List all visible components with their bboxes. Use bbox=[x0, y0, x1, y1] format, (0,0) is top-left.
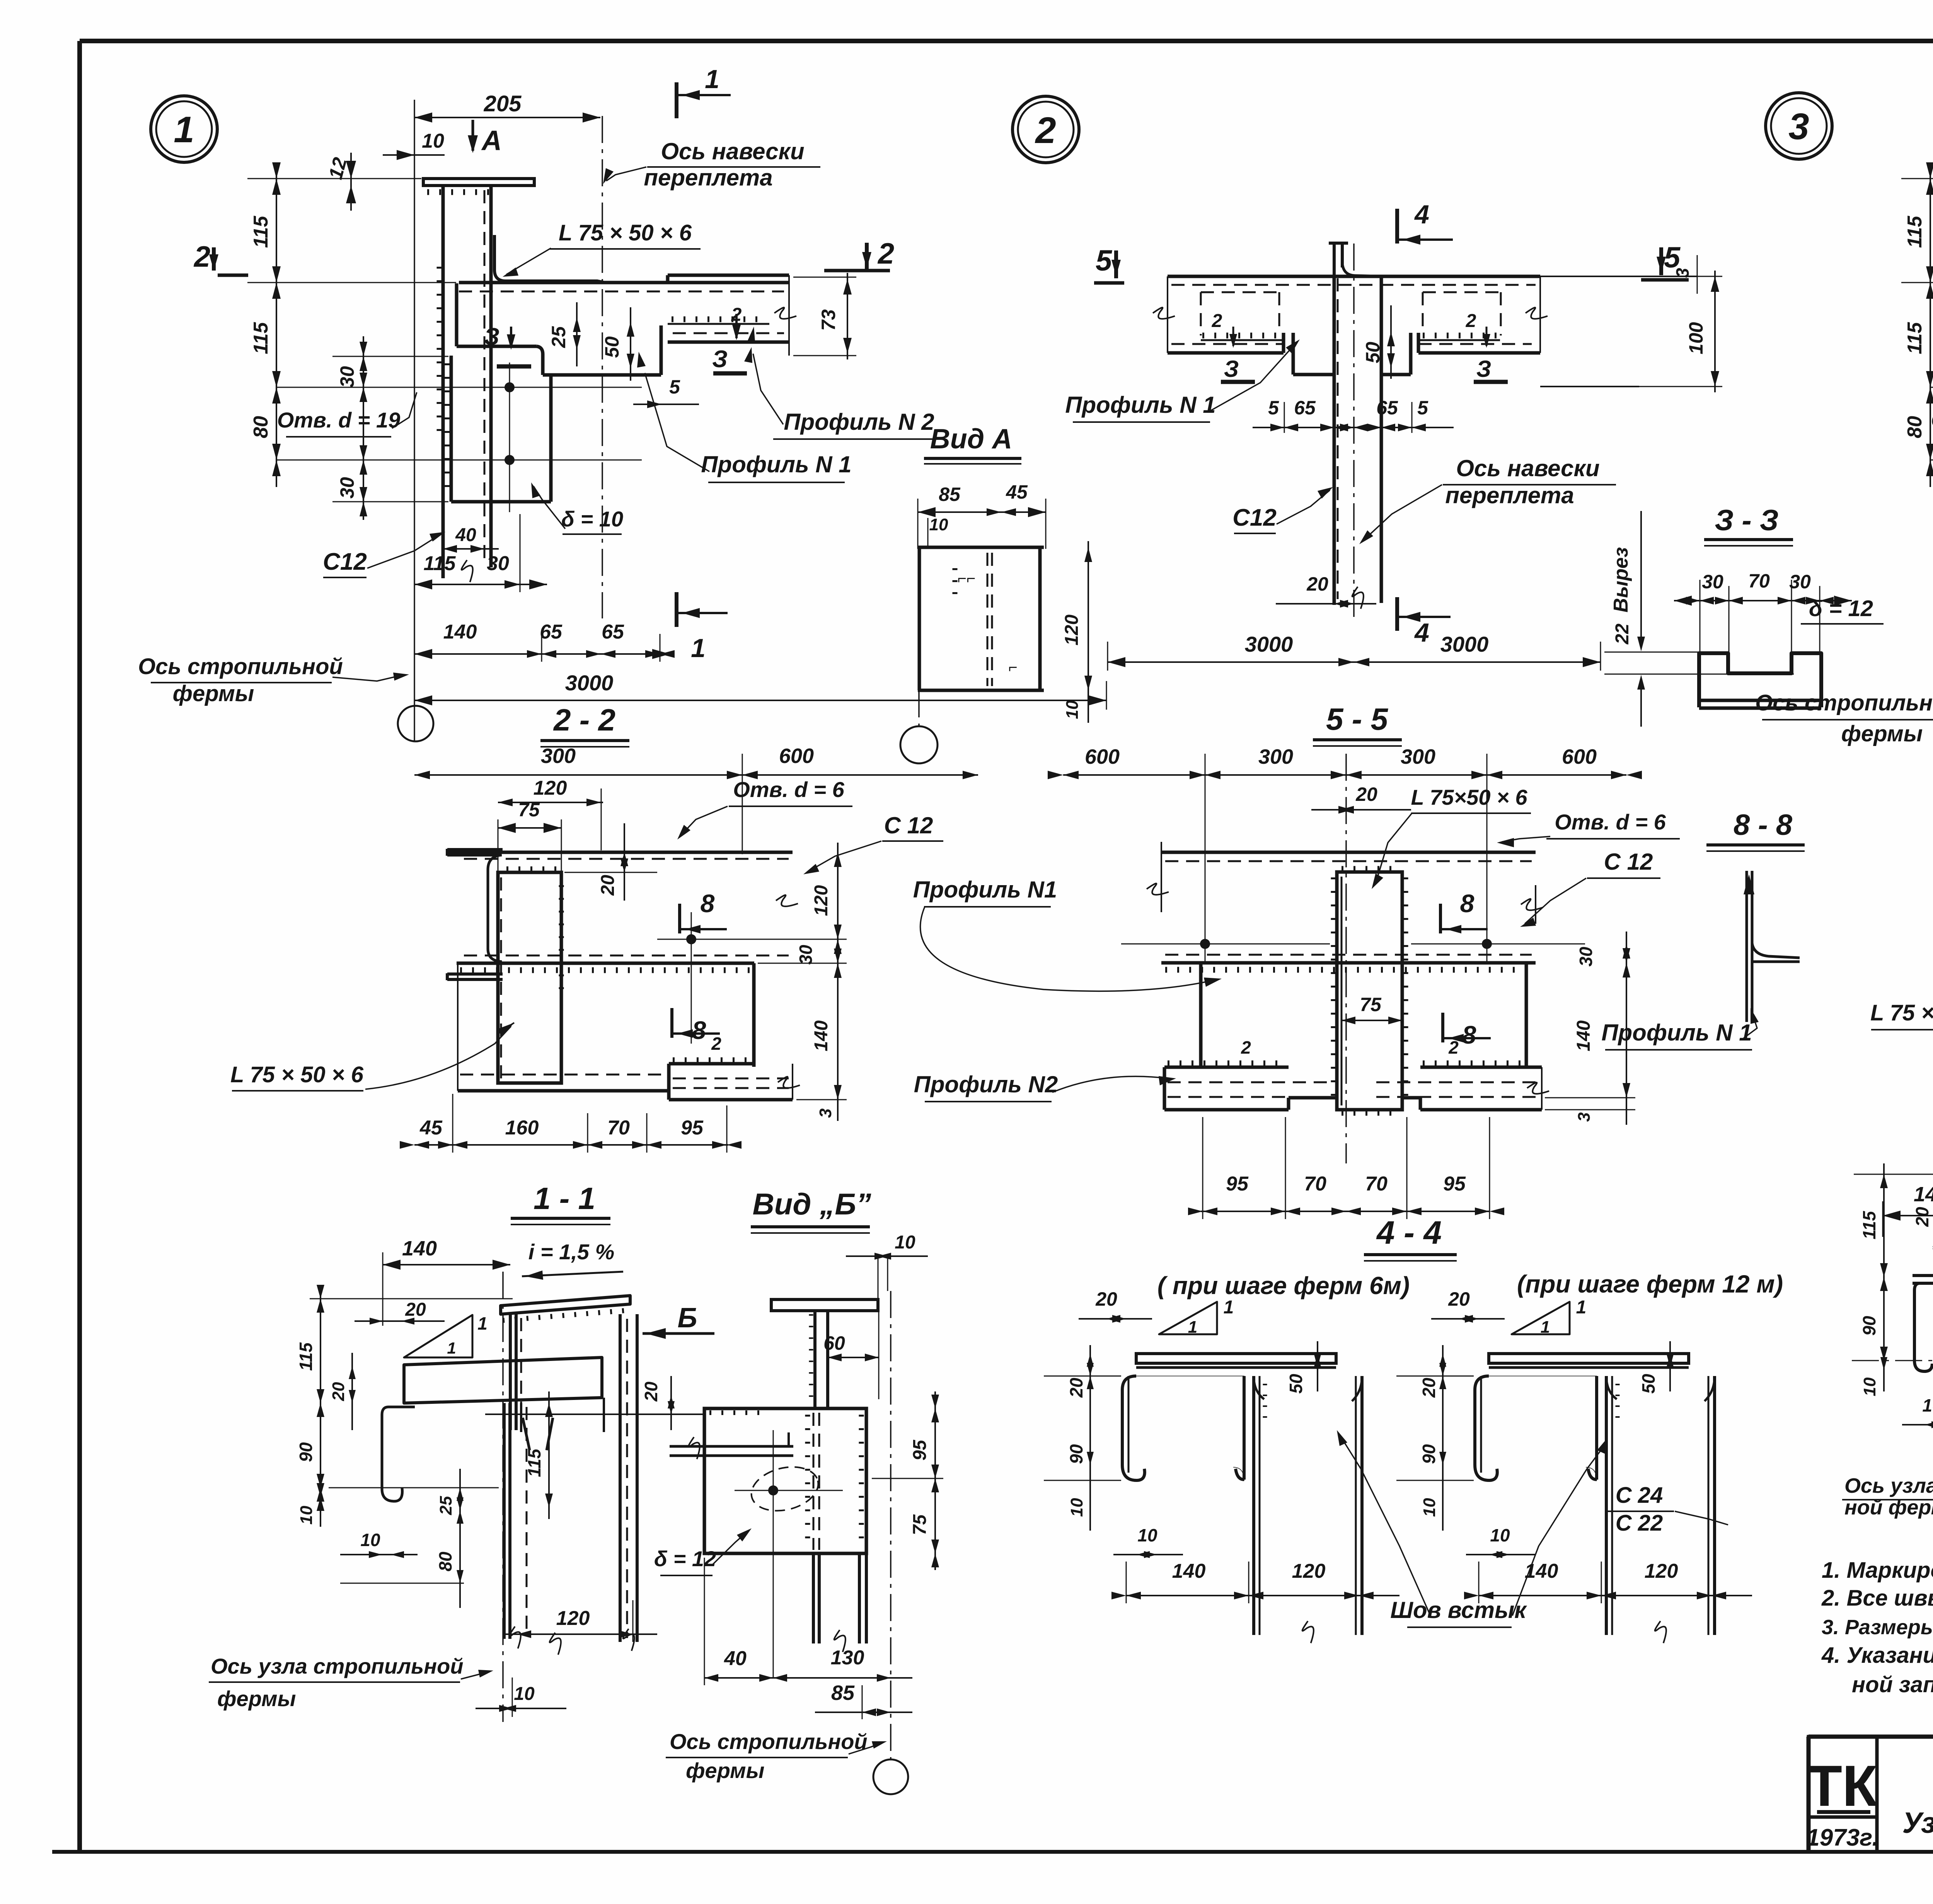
top plate (1-1) bbox=[404, 1357, 602, 1403]
svg-text:1: 1 bbox=[1541, 1318, 1550, 1337]
svg-text:120: 120 bbox=[1645, 1560, 1678, 1582]
svg-text:З: З bbox=[484, 324, 499, 350]
svg-text:1. Маркировка узлов н: 1. Маркировка узлов на листах 8 ÷ 11. bbox=[1822, 1558, 1933, 1583]
node circle detail 1 bbox=[398, 706, 433, 741]
svg-text:40: 40 bbox=[724, 1647, 747, 1670]
beam top line bbox=[1168, 275, 1540, 278]
svg-text:8: 8 bbox=[701, 889, 715, 918]
svg-text:120: 120 bbox=[1062, 615, 1082, 645]
svg-text:45: 45 bbox=[419, 1117, 443, 1139]
svg-text:20: 20 bbox=[1419, 1378, 1439, 1398]
svg-text:1: 1 bbox=[705, 65, 719, 94]
svg-text:3000: 3000 bbox=[1440, 632, 1489, 656]
svg-text:2: 2 bbox=[1448, 1037, 1459, 1058]
bolts (5-5) bbox=[1200, 939, 1210, 949]
svg-text:50: 50 bbox=[1638, 1374, 1659, 1394]
svg-text:З: З bbox=[1224, 356, 1239, 382]
5-5 lower gussets bbox=[1199, 963, 1203, 1067]
section mark 4 bottom bbox=[1395, 597, 1399, 631]
svg-text:30: 30 bbox=[796, 945, 816, 965]
5-5 lower-right block bbox=[1423, 1061, 1527, 1066]
svg-text:1 - 1: 1 - 1 bbox=[534, 1181, 595, 1216]
svg-text:70: 70 bbox=[1365, 1173, 1388, 1195]
dims 115 20 (Б-Б) bbox=[1883, 1163, 1885, 1287]
svg-text:10: 10 bbox=[1922, 1395, 1933, 1415]
title block outline bbox=[1809, 1735, 1933, 1739]
svg-text:( при шаге ферм 6м): ( при шаге ферм 6м) bbox=[1157, 1272, 1410, 1299]
bracket channel verticals (1-1) bbox=[503, 1403, 506, 1639]
2-2 lower outline bbox=[457, 963, 459, 1091]
svg-text:2 - 2: 2 - 2 bbox=[553, 703, 615, 737]
dim 20 (2-2) bbox=[624, 823, 625, 901]
svg-text:95: 95 bbox=[1443, 1173, 1466, 1195]
svg-text:1: 1 bbox=[447, 1339, 456, 1357]
svg-text:Профиль N 1: Профиль N 1 bbox=[701, 451, 851, 477]
left rail block bbox=[1202, 333, 1278, 339]
svg-text:90: 90 bbox=[296, 1442, 316, 1462]
svg-text:5: 5 bbox=[669, 376, 680, 398]
svg-text:1: 1 bbox=[477, 1313, 488, 1333]
dims 3000 3000 (detail 2) bbox=[1108, 661, 1601, 663]
svg-text:Отв. d = 19: Отв. d = 19 bbox=[277, 408, 401, 432]
svg-text:30: 30 bbox=[1702, 571, 1723, 593]
svg-text:120: 120 bbox=[1292, 1560, 1326, 1582]
svg-text:300: 300 bbox=[1401, 745, 1435, 768]
view arrow A bbox=[472, 120, 474, 151]
svg-text:Вид „Б”: Вид „Б” bbox=[752, 1187, 871, 1221]
dim 20 left (1-1) bbox=[351, 1353, 353, 1430]
svg-text:115: 115 bbox=[296, 1342, 316, 1371]
C12 channel stem bbox=[441, 186, 445, 578]
dim 100 right bbox=[1714, 271, 1716, 392]
bottom dims 140 / 65 / 65 bbox=[414, 653, 670, 655]
svg-text:120: 120 bbox=[811, 885, 832, 916]
svg-text:95: 95 bbox=[910, 1439, 930, 1461]
dims chain (4-4) bbox=[1089, 1345, 1091, 1531]
svg-text:Ось навески: Ось навески bbox=[661, 138, 804, 164]
svg-text:10: 10 bbox=[297, 1505, 316, 1524]
svg-text:20: 20 bbox=[1912, 1207, 1932, 1227]
right channel (4-4) bbox=[1605, 1376, 1608, 1635]
svg-text:600: 600 bbox=[1562, 745, 1597, 768]
svg-text:Ось узла стропильˉ: Ось узла стропильˉ bbox=[1844, 1474, 1933, 1497]
svg-text:205: 205 bbox=[484, 91, 522, 116]
svg-text:10: 10 bbox=[1063, 700, 1082, 719]
svg-text:10: 10 bbox=[514, 1684, 535, 1704]
svg-text:10: 10 bbox=[1860, 1377, 1879, 1396]
svg-text:С 22: С 22 bbox=[1616, 1511, 1663, 1536]
svg-text:З - З: З - З bbox=[1715, 504, 1778, 537]
top plate (4-4) bbox=[1136, 1354, 1336, 1363]
left channel (4-4) bbox=[1475, 1376, 1497, 1480]
svg-text:60: 60 bbox=[823, 1332, 845, 1354]
section mark 1 top bbox=[675, 82, 678, 118]
svg-text:5: 5 bbox=[1096, 244, 1113, 277]
svg-text:⌐: ⌐ bbox=[1008, 659, 1017, 676]
dims 95 / 75 (Вид Б) bbox=[934, 1391, 936, 1570]
svg-text:20: 20 bbox=[1095, 1288, 1117, 1310]
svg-text:90: 90 bbox=[1066, 1444, 1086, 1464]
dims 300 600 bbox=[414, 774, 978, 776]
svg-text:75: 75 bbox=[1360, 994, 1382, 1015]
svg-text:ТК: ТК bbox=[1807, 1753, 1878, 1818]
slope triangle (4-4) bbox=[1159, 1302, 1217, 1334]
inclined top plate (Вид Б left) bbox=[501, 1296, 630, 1314]
svg-text:1973г.: 1973г. bbox=[1806, 1824, 1878, 1851]
small stub angle on top bbox=[1333, 243, 1336, 276]
detail 3 bubble bbox=[1766, 93, 1832, 159]
right dims 30 140 3 (5-5) bbox=[1626, 932, 1627, 1125]
svg-text:Профиль N 2: Профиль N 2 bbox=[784, 409, 934, 435]
svg-text:10: 10 bbox=[360, 1530, 380, 1550]
svg-text:50: 50 bbox=[601, 336, 623, 358]
svg-text:С 12: С 12 bbox=[1604, 849, 1653, 875]
dims chain (4-4) bbox=[1442, 1345, 1444, 1531]
svg-text:Профиль N 1: Профиль N 1 bbox=[1065, 392, 1215, 418]
svg-text:95: 95 bbox=[681, 1117, 704, 1139]
detail 2 centre axis bbox=[1353, 244, 1355, 623]
axis (Вид Б) bbox=[890, 1291, 891, 1759]
section mark 1 bottom bbox=[675, 592, 678, 627]
svg-text:80: 80 bbox=[250, 416, 272, 438]
svg-text:8: 8 bbox=[692, 1016, 706, 1044]
svg-text:1: 1 bbox=[1224, 1297, 1234, 1318]
vertical axis of truss (осъ стропильной фермы) bbox=[414, 100, 415, 742]
5-5 centre stem rectangle bbox=[1337, 872, 1402, 1110]
angle L75x50x6 bbox=[494, 235, 605, 283]
gusset plate outline bbox=[455, 283, 459, 346]
svg-text:73: 73 bbox=[818, 309, 839, 331]
svg-text:115: 115 bbox=[1904, 215, 1926, 248]
svg-text:75: 75 bbox=[518, 799, 540, 821]
svg-text:С12: С12 bbox=[1232, 504, 1277, 531]
svg-text:65: 65 bbox=[1294, 397, 1316, 419]
2-2 gusset rectangle bbox=[498, 872, 561, 1083]
svg-text:45: 45 bbox=[1006, 481, 1028, 503]
svg-text:фермы: фермы bbox=[217, 1686, 296, 1711]
svg-text:300: 300 bbox=[541, 744, 576, 768]
oval with bolt (Вид Б) bbox=[747, 1460, 823, 1517]
svg-text:5: 5 bbox=[1268, 397, 1279, 419]
svg-text:20: 20 bbox=[329, 1382, 348, 1401]
svg-text:30: 30 bbox=[336, 477, 358, 499]
svg-text:Б: Б bbox=[678, 1303, 697, 1333]
svg-text:Ось стропильной: Ось стропильной bbox=[1755, 690, 1933, 715]
svg-text:140: 140 bbox=[402, 1237, 437, 1260]
svg-text:20: 20 bbox=[1306, 573, 1328, 595]
svg-text:Узлы 1; 2 и 3 фонарных панеле: Узлы 1; 2 и 3 фонарных панелей bbox=[1902, 1807, 1933, 1839]
inner 30 dims bbox=[363, 336, 364, 520]
svg-text:600: 600 bbox=[1085, 745, 1120, 768]
page border frame bbox=[80, 39, 1933, 43]
svg-text:5 - 5: 5 - 5 bbox=[1326, 702, 1389, 736]
svg-text:L 75 × 50 × 6: L 75 × 50 × 6 bbox=[559, 220, 692, 245]
flange plate (Б-Б) bbox=[1913, 1274, 1933, 1277]
svg-text:Ось стропильной: Ось стропильной bbox=[670, 1729, 868, 1754]
svg-text:100: 100 bbox=[1685, 322, 1707, 354]
svg-text:5: 5 bbox=[1417, 397, 1428, 419]
profile N2 block top right bbox=[668, 274, 789, 277]
bottom dims 95 70 70 95 (5-5) bbox=[1201, 1211, 1490, 1212]
svg-text:65: 65 bbox=[1376, 397, 1398, 419]
node circle below Вид А bbox=[918, 690, 920, 726]
right dims 120/30/140/3 (2-2) bbox=[837, 843, 839, 1121]
svg-text:Профиль N 1: Профиль N 1 bbox=[1601, 1020, 1752, 1046]
svg-text:115: 115 bbox=[424, 552, 456, 575]
svg-text:70: 70 bbox=[607, 1117, 630, 1139]
svg-text:10: 10 bbox=[1420, 1498, 1439, 1517]
svg-text:30: 30 bbox=[336, 366, 358, 388]
svg-text:1: 1 bbox=[1188, 1318, 1197, 1337]
svg-text:10: 10 bbox=[1067, 1498, 1086, 1517]
centre gusset of detail 2 bbox=[1292, 333, 1295, 375]
bolt + centreline (2-2) bbox=[686, 934, 696, 944]
left hook (Б-Б) bbox=[1914, 1283, 1933, 1371]
svg-text:95: 95 bbox=[1226, 1173, 1249, 1195]
dim 50 (4-4) bbox=[1669, 1341, 1671, 1391]
svg-text:8 - 8: 8 - 8 bbox=[1734, 809, 1793, 841]
slope triangle (1-1) bbox=[404, 1315, 472, 1357]
dim 140 (1-1) bbox=[383, 1264, 510, 1265]
svg-text:Профиль N1: Профиль N1 bbox=[913, 877, 1057, 903]
svg-text:L 75 × 50 × 6: L 75 × 50 × 6 bbox=[1870, 1000, 1933, 1025]
svg-text:δ = 10: δ = 10 bbox=[561, 507, 623, 531]
svg-text:20: 20 bbox=[1355, 783, 1377, 805]
detail 2 bubble bbox=[1013, 96, 1079, 163]
svg-text:1: 1 bbox=[1576, 1297, 1587, 1318]
T-column (Вид Б) bbox=[771, 1299, 878, 1311]
svg-text:переплета: переплета bbox=[644, 165, 772, 191]
svg-text:3. Размеры поперечных сечен: 3. Размеры поперечных сечений профилей N… bbox=[1822, 1616, 1933, 1639]
dims 600 300 300 600 (5-5) bbox=[1063, 774, 1626, 776]
C12 stem below bbox=[1333, 276, 1336, 605]
dims 85 45 bbox=[918, 511, 1046, 513]
svg-text:140: 140 bbox=[811, 1020, 832, 1051]
svg-text:Шов встык: Шов встык bbox=[1390, 1597, 1527, 1623]
svg-text:3: 3 bbox=[1788, 106, 1809, 147]
svg-text:4 - 4: 4 - 4 bbox=[1376, 1214, 1442, 1251]
top plate (4-4) bbox=[1489, 1354, 1689, 1363]
right rail block bbox=[1423, 333, 1498, 339]
left dimension chain 115/115/80 bbox=[276, 166, 277, 487]
dim 3000 (detail 1) bbox=[414, 700, 1106, 701]
dim 75 (2-2) bbox=[498, 827, 561, 829]
svg-text:Ось навески: Ось навески bbox=[1456, 455, 1599, 481]
2-2 rail outline bbox=[449, 851, 793, 854]
slope triangle (4-4) bbox=[1512, 1302, 1570, 1334]
svg-text:фермы: фермы bbox=[173, 681, 254, 706]
top flange plate bbox=[423, 179, 534, 186]
svg-text:85: 85 bbox=[939, 484, 961, 505]
svg-text:(при шаге ферм 12 м): (при шаге ферм 12 м) bbox=[1517, 1270, 1783, 1298]
svg-text:30: 30 bbox=[1576, 947, 1596, 967]
dim 120 / 10 right of Вид А bbox=[1088, 541, 1089, 723]
svg-text:20: 20 bbox=[1066, 1378, 1086, 1398]
svg-text:4: 4 bbox=[1414, 200, 1429, 229]
svg-text:22: 22 bbox=[1612, 623, 1633, 645]
vertical channel under plate (Вид Б) bbox=[619, 1314, 622, 1642]
svg-text:20: 20 bbox=[1448, 1288, 1470, 1310]
dim 50 bbox=[630, 307, 631, 381]
svg-text:4: 4 bbox=[1414, 618, 1429, 647]
svg-text:2: 2 bbox=[193, 240, 210, 273]
svg-text:40: 40 bbox=[455, 525, 476, 545]
lower plate delta=10 bbox=[450, 356, 453, 502]
left dimension chain 115/115/80 bbox=[1930, 166, 1931, 487]
svg-text:115: 115 bbox=[1859, 1211, 1879, 1240]
svg-text:10: 10 bbox=[929, 515, 948, 534]
dim 205 bbox=[414, 117, 600, 118]
svg-text:А: А bbox=[481, 125, 502, 156]
svg-text:Ось узла стропильной: Ось узла стропильной bbox=[211, 1654, 464, 1678]
Вид А plate outline bbox=[918, 546, 1044, 549]
svg-text:1: 1 bbox=[691, 634, 706, 663]
svg-text:3000: 3000 bbox=[1245, 632, 1293, 656]
dim 140 (Б-Б) bbox=[1883, 1215, 1933, 1216]
bolt holes d=19 bbox=[505, 382, 515, 392]
svg-text:80: 80 bbox=[435, 1551, 455, 1572]
svg-text:115: 115 bbox=[1904, 322, 1926, 354]
svg-text:Вырез: Вырез bbox=[1610, 547, 1632, 612]
svg-text:2. Все швы h = 4мм, кроме о: 2. Все швы h = 4мм, кроме оговоренных· bbox=[1821, 1586, 1933, 1611]
svg-text:90: 90 bbox=[1859, 1316, 1879, 1336]
5-5 lower-left block bbox=[1168, 1061, 1284, 1066]
svg-text:Профиль N2: Профиль N2 bbox=[914, 1071, 1058, 1097]
dim 50 centre bbox=[1390, 305, 1392, 379]
svg-text:1: 1 bbox=[174, 109, 194, 150]
svg-text:140: 140 bbox=[443, 621, 477, 643]
node circle (Вид Б) bbox=[873, 1759, 908, 1794]
svg-text:Отв. d = 6: Отв. d = 6 bbox=[733, 777, 844, 802]
box of Вид Б bbox=[704, 1408, 866, 1553]
svg-text:4. Указания по сварке прив: 4. Указания по сварке приведены в раздел… bbox=[1821, 1643, 1933, 1668]
section mark 4 top bbox=[1395, 209, 1399, 244]
dims 30 70 30 bbox=[1674, 600, 1852, 601]
svg-text:3: 3 bbox=[816, 1109, 835, 1118]
svg-text:2: 2 bbox=[877, 237, 894, 270]
left channel (4-4) bbox=[1122, 1376, 1145, 1480]
detail 1 bubble bbox=[151, 96, 217, 162]
svg-text:8: 8 bbox=[1462, 1020, 1476, 1049]
svg-text:δ = 12: δ = 12 bbox=[654, 1546, 716, 1571]
svg-text:140: 140 bbox=[1573, 1020, 1594, 1051]
svg-text:75: 75 bbox=[910, 1514, 930, 1535]
svg-text:10: 10 bbox=[1137, 1525, 1157, 1545]
angle bracket inside box (Вид Б) bbox=[670, 1445, 793, 1448]
dims 5 65 65 5 below beam bbox=[1253, 427, 1454, 428]
svg-text:3000: 3000 bbox=[565, 671, 614, 695]
left channel legs (Вид Б) bbox=[509, 1314, 512, 1430]
3-3 channel body bbox=[1699, 653, 1821, 707]
svg-text:90: 90 bbox=[1419, 1444, 1439, 1464]
dim 40 at stem bottom bbox=[443, 548, 499, 550]
2-2 lower-right block (profile N2) bbox=[673, 1058, 752, 1063]
svg-text:2: 2 bbox=[1466, 311, 1476, 331]
svg-text:С 12: С 12 bbox=[884, 812, 933, 838]
svg-text:30: 30 bbox=[487, 552, 509, 575]
svg-text:130: 130 bbox=[831, 1647, 864, 1669]
svg-text:160: 160 bbox=[505, 1117, 539, 1139]
svg-text:120: 120 bbox=[534, 777, 567, 799]
horizontal base line (Вид Б) bbox=[485, 1414, 704, 1415]
bottom dims 115 / 30 bbox=[414, 584, 547, 585]
2-2 channel flange left bbox=[447, 848, 503, 851]
centre axis (5-5) bbox=[1345, 754, 1347, 1163]
svg-text:З: З bbox=[712, 346, 728, 373]
svg-text:20: 20 bbox=[641, 1381, 661, 1402]
dim 73 bbox=[847, 273, 848, 359]
rails below box (Вид Б) bbox=[812, 1553, 815, 1643]
svg-text:З: З bbox=[1476, 356, 1492, 382]
dim 5 bbox=[633, 404, 699, 405]
dim 115 right (1-1) bbox=[548, 1391, 550, 1519]
svg-text:фермы: фермы bbox=[1841, 721, 1923, 746]
svg-text:115: 115 bbox=[250, 215, 272, 248]
left inner dashed pocket bbox=[1200, 292, 1202, 335]
svg-text:120: 120 bbox=[556, 1607, 590, 1630]
svg-text:70: 70 bbox=[1304, 1173, 1326, 1195]
axis of sash hinge (ось навески переплета), dash-dot bbox=[602, 116, 603, 618]
svg-text:Отв. d = 6: Отв. d = 6 bbox=[1555, 810, 1666, 834]
svg-text:8: 8 bbox=[1460, 889, 1474, 918]
svg-text:Отв. d = 19: Отв. d = 19 bbox=[1931, 408, 1933, 432]
svg-text:50: 50 bbox=[1286, 1374, 1306, 1394]
svg-text:10: 10 bbox=[895, 1232, 915, 1253]
svg-text:2: 2 bbox=[711, 1034, 721, 1054]
svg-text:20: 20 bbox=[598, 875, 618, 896]
right channel (4-4) bbox=[1252, 1376, 1255, 1635]
svg-text:50: 50 bbox=[1362, 342, 1384, 363]
svg-text:115: 115 bbox=[524, 1448, 544, 1477]
svg-text:С 24: С 24 bbox=[1616, 1483, 1663, 1508]
profile N1 top edge bbox=[459, 281, 789, 284]
svg-text:Вид А: Вид А bbox=[930, 424, 1012, 455]
svg-text:140: 140 bbox=[1172, 1560, 1206, 1582]
svg-text:300: 300 bbox=[1258, 745, 1293, 768]
svg-text:Ось стропильной: Ось стропильной bbox=[138, 654, 343, 679]
thin reference lines (1-1) bbox=[310, 1298, 513, 1299]
svg-text:10: 10 bbox=[422, 130, 444, 152]
svg-text:L 75×50 × 6: L 75×50 × 6 bbox=[1411, 785, 1528, 809]
svg-text:25: 25 bbox=[436, 1496, 455, 1515]
svg-text:фермы: фермы bbox=[686, 1758, 764, 1783]
svg-text:3: 3 bbox=[1575, 1112, 1594, 1122]
inner welds bbox=[987, 553, 989, 686]
svg-text:600: 600 bbox=[779, 744, 814, 768]
5-5 rail bbox=[1161, 851, 1536, 854]
dim 12 flange thickness bbox=[350, 153, 352, 211]
dim 10 bbox=[383, 154, 445, 156]
svg-text:70: 70 bbox=[1748, 570, 1770, 592]
svg-text:80: 80 bbox=[1904, 416, 1926, 438]
svg-text:30: 30 bbox=[1789, 571, 1811, 593]
svg-text:L 75 × 50 × 6: L 75 × 50 × 6 bbox=[230, 1062, 364, 1087]
dims 90 10 left (Б-Б) bbox=[1883, 1287, 1885, 1391]
svg-text:20: 20 bbox=[405, 1299, 426, 1320]
svg-text:i = 1,5 %: i = 1,5 % bbox=[528, 1240, 615, 1264]
dim 50 (4-4) bbox=[1317, 1341, 1318, 1391]
svg-text:10: 10 bbox=[1490, 1525, 1510, 1545]
svg-text:ной записки.: ной записки. bbox=[1852, 1672, 1933, 1697]
svg-text:2: 2 bbox=[1035, 110, 1056, 151]
8-8 profile bbox=[1745, 871, 1748, 1022]
svg-text:140: 140 bbox=[1914, 1183, 1933, 1206]
svg-text:65: 65 bbox=[602, 621, 624, 643]
svg-text:С12: С12 bbox=[323, 548, 367, 575]
svg-text:⌐⌐: ⌐⌐ bbox=[958, 570, 976, 587]
svg-text:85: 85 bbox=[831, 1681, 855, 1705]
axis of truss node (1-1), dash-dot bbox=[502, 1272, 504, 1722]
